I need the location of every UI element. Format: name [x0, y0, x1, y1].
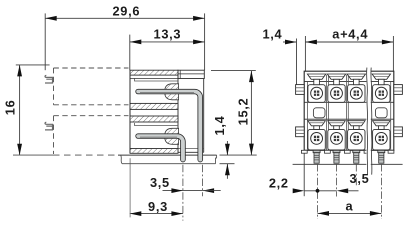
funnel row2 col2 — [328, 121, 346, 126]
dimension 16 — [2, 65, 49, 155]
dimension 3,5 (left view, pin pitch) — [150, 175, 221, 193]
svg-text:3,5: 3,5 — [350, 171, 370, 186]
contact neck row2 col4 — [379, 126, 385, 130]
side tab right upper — [394, 85, 403, 95]
rear face right edge — [203, 79, 205, 153]
row1 bottom line — [304, 101, 394, 103]
contact circle row1 col1 — [311, 87, 323, 99]
top white strip under flange — [130, 77, 178, 79]
contact circle row1 col2 — [331, 87, 343, 99]
inner wall right — [390, 81, 392, 150]
screw recess row2 col2 — [334, 136, 339, 141]
rear seat line — [178, 148, 204, 150]
front body outline — [304, 71, 394, 150]
screw recess row2 col3 — [354, 136, 359, 141]
latch hook detail lower — [45, 122, 53, 130]
contact square row1 col4 — [373, 85, 390, 103]
solder pin col1 — [313, 150, 320, 152]
screw recess row1 col2 — [334, 91, 339, 96]
dimension a+4,4 — [305, 27, 393, 72]
svg-text:29,6: 29,6 — [112, 4, 140, 19]
dimension 1,4 (pcb thickness, left view) — [212, 115, 234, 178]
contact cells (both rows) — [307, 74, 390, 150]
contact square row2 col3 — [348, 129, 365, 150]
contact square row1 col1 — [308, 85, 325, 103]
side tab left upper — [296, 85, 305, 95]
mid band bottom line — [304, 118, 394, 120]
funnel row2 col3 — [348, 121, 366, 126]
svg-text:3,5: 3,5 — [150, 175, 170, 190]
cavity A step — [135, 78, 179, 81]
dimension 1,4 (right view, side tab) — [262, 27, 296, 85]
contact neck row2 col2 — [334, 126, 340, 130]
flange box (rear, elevation) — [178, 70, 204, 78]
screw recess row2 col4 — [379, 136, 384, 141]
svg-text:a: a — [345, 199, 353, 214]
funnel row1 col3 — [347, 74, 365, 79]
dimension 2,2 and 3,5 (right view) — [269, 153, 370, 196]
contact square row2 col2 — [328, 129, 345, 150]
pin B seam line — [140, 92, 194, 94]
dimension a — [318, 199, 382, 216]
svg-text:16: 16 — [2, 100, 17, 116]
dimension 9,3 — [130, 158, 183, 217]
dimension 13,3 — [130, 27, 205, 71]
contact circle row2 col3 — [350, 133, 362, 145]
screw recess row2 col1 — [314, 136, 319, 141]
latch hook detail upper — [45, 75, 53, 83]
solder pin col3 — [353, 150, 360, 152]
centerlines below pins — [318, 164, 382, 219]
contact neck row2 col1 — [314, 126, 320, 130]
contact neck row1 col2 — [334, 79, 340, 84]
contact square row1 col3 — [348, 85, 365, 103]
break lines (variable width) — [366, 68, 372, 175]
connector body: top hatched band — [130, 70, 178, 75]
pin A seam line — [140, 136, 177, 138]
rear bottom edge — [178, 151, 204, 153]
screw recess row1 col1 — [314, 91, 319, 96]
svg-text:2,2: 2,2 — [269, 176, 289, 191]
keying blob col1 — [313, 108, 325, 118]
screw recess row1 col3 — [354, 91, 359, 96]
hatched band mid 2 — [130, 116, 178, 122]
svg-text:13,3: 13,3 — [154, 27, 182, 42]
solder pin col2 — [333, 150, 340, 152]
funnel row1 col4 — [372, 74, 390, 79]
contact neck row2 col3 — [354, 126, 360, 130]
side tab right lower — [394, 127, 403, 137]
pin collar boss upper (hatched) — [165, 84, 179, 100]
svg-text:1,4: 1,4 — [262, 27, 282, 42]
funnel row1 col1 — [307, 74, 325, 79]
keying blob col4 — [376, 108, 388, 118]
solder pins (front view) — [313, 150, 385, 163]
contact circle row2 col2 — [331, 133, 343, 145]
contact circle row1 col3 — [350, 87, 362, 99]
funnel row2 col4 — [373, 121, 391, 126]
pin A (lower row, right-angle) — [136, 134, 186, 162]
solder pin col4 — [378, 150, 385, 152]
bottom hatched seat band — [130, 149, 178, 154]
dimension 29,6 — [45, 4, 204, 71]
svg-text:9,3: 9,3 — [148, 199, 168, 214]
pcb board band — [13, 155, 217, 164]
mating plug phantom outline (dashed) — [54, 68, 129, 154]
funnel row1 col2 — [327, 74, 345, 79]
contact neck row1 col3 — [354, 79, 360, 84]
contact square row2 col4 — [373, 129, 390, 150]
side tab left lower — [296, 127, 305, 137]
contact circle row2 col1 — [311, 133, 323, 145]
pin collar boss lower (hatched) — [165, 128, 179, 144]
body left edge — [129, 70, 131, 153]
contact circle row1 col4 — [375, 87, 387, 99]
svg-text:15,2: 15,2 — [236, 98, 251, 126]
partition col2/col3 — [346, 75, 348, 151]
svg-text:a+4,4: a+4,4 — [332, 27, 368, 42]
pcb line (front view) — [293, 163, 403, 165]
rear inner wall — [177, 70, 179, 153]
contact circle row2 col4 — [375, 133, 387, 145]
contact neck row1 col1 — [314, 79, 320, 84]
partition col1/col2 — [326, 75, 328, 151]
contact square row2 col1 — [308, 129, 325, 150]
hatched band mid 1 — [130, 103, 178, 109]
centerline pin A (left view) — [182, 165, 184, 221]
contact square row1 col2 — [328, 85, 345, 103]
screw recess row1 col4 — [379, 91, 384, 96]
mounting feet under body — [301, 150, 394, 153]
inner wall left — [306, 81, 308, 150]
centerline pin B (left view) — [202, 165, 204, 196]
dimension 15,2 — [211, 71, 257, 156]
funnel row2 col1 — [308, 121, 326, 126]
pin B (upper row, right-angle) — [136, 89, 203, 162]
svg-text:1,4: 1,4 — [212, 115, 227, 135]
contact neck row1 col4 — [379, 79, 385, 84]
cavity B step — [135, 123, 179, 126]
funnel strip bottom line — [304, 80, 394, 82]
